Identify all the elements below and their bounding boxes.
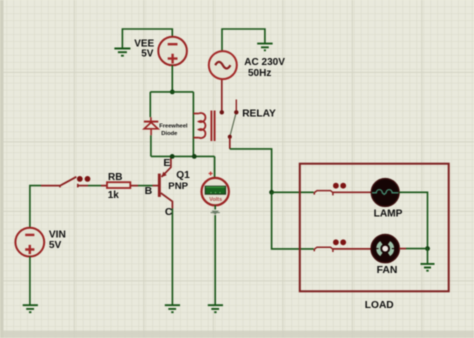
svg-text:E: E [163,157,170,169]
wire voltmeter to ground [214,215,216,305]
wire left branch down to diode [149,92,151,117]
relay coil L1 [193,113,205,138]
switch SW1 lever [60,176,90,187]
svg-text:LOAD: LOAD [365,300,394,311]
svg-text:RB: RB [108,172,122,183]
wire switch to RB (red then green) [78,185,88,187]
svg-text:Diode: Diode [161,131,178,137]
ground (AC source) [257,44,272,51]
wire fan right (red stub) [399,248,406,250]
label VIN 5V [49,230,66,251]
wire to switch pivot (red) [41,185,61,187]
svg-text:50Hz: 50Hz [248,68,271,79]
diode D1 freewheel [144,117,158,135]
relay contact lever [230,114,236,135]
svg-text:B: B [145,185,153,197]
node junction below VEE [170,90,175,95]
svg-text:Freewheel: Freewheel [159,123,188,129]
ground (voltmeter) [208,305,223,312]
transistor Q1 base bar [158,174,161,197]
svg-text:5V: 5V [49,240,62,251]
node load split [269,190,274,195]
wire emitter row [151,155,215,157]
wire VIN bottom to ground [29,257,31,306]
node emitter [170,154,175,159]
labels E B C Q1 PNP [145,157,191,218]
switch SW-LAMP [314,183,346,196]
wire VEE top (ground to VEE source) [122,29,172,49]
wire fan right green [406,248,428,250]
wire switch to lamp (red) [333,191,371,193]
LOAD box [300,164,449,292]
Q1 emitter wire from node [162,157,171,177]
wire relay common to load node [230,149,272,192]
label Freewheel Diode [159,123,188,136]
relay contact terminal 2 [234,110,238,114]
switch SW-FAN [314,239,346,252]
svg-text:C: C [165,206,173,218]
svg-text:5V: 5V [141,49,154,60]
svg-text:1k: 1k [108,190,120,201]
label VEE 5V [134,39,154,60]
relay contact terminal 1 [220,110,224,114]
wire switch to fan (red) [333,248,371,250]
svg-text:Volts: Volts [209,197,222,203]
svg-text:Q1: Q1 [176,170,190,181]
wire VEE bottom to node [171,65,173,92]
ground (load box) [421,264,435,271]
relay contact stub 2 [235,100,237,111]
wire collector to ground [171,209,173,306]
AC source V1 [209,51,237,79]
bottom edge band [0,331,474,338]
wire AC source to relay contact (red) [221,79,223,110]
ground (VEE, top-left) [114,49,130,56]
ground (VIN) [23,305,38,312]
wire AC top to ground [222,29,265,51]
svg-text:LAMP: LAMP [374,209,403,220]
relay contact pivot [228,135,232,139]
resistor RB leads [101,185,138,187]
voltmeter bottom arrow [214,205,216,209]
battery VIN [15,228,44,257]
ground (collector) [165,305,180,312]
wire VIN top [30,186,41,228]
wire node horizontal [150,91,193,93]
wire to voltmeter [214,156,216,178]
svg-text:AC 230V: AC 230V [244,57,285,68]
wire relay common (red part) [229,137,231,149]
svg-text:RELAY: RELAY [242,108,276,119]
wire diode bottom to emitter row [150,135,152,156]
voltmeter U2 [202,178,229,205]
label AC 230V 50Hz [244,57,285,79]
Q1 emitter arrow [161,172,166,178]
wire down to fan row [272,192,314,249]
resistor RB body [107,182,130,188]
Q1 collector wire [161,193,173,209]
svg-text:PNP: PNP [168,181,188,192]
label RB 1k [108,172,123,201]
voltmeter plus mark [209,172,213,176]
node coil bottom [192,154,197,159]
relay core bars [211,111,214,142]
battery VEE [158,37,187,66]
wire lamp right [399,192,427,248]
lamp LAMP [371,179,399,207]
wire to lamp switch [272,191,314,193]
fan FAN [371,235,399,263]
wire coil branch vertical [192,92,194,156]
svg-text:FAN: FAN [377,265,398,276]
wire down to in-box ground [427,249,429,264]
left edge strip [0,0,4,338]
wire RB to base [138,185,153,187]
node lamp-fan right [425,246,430,251]
